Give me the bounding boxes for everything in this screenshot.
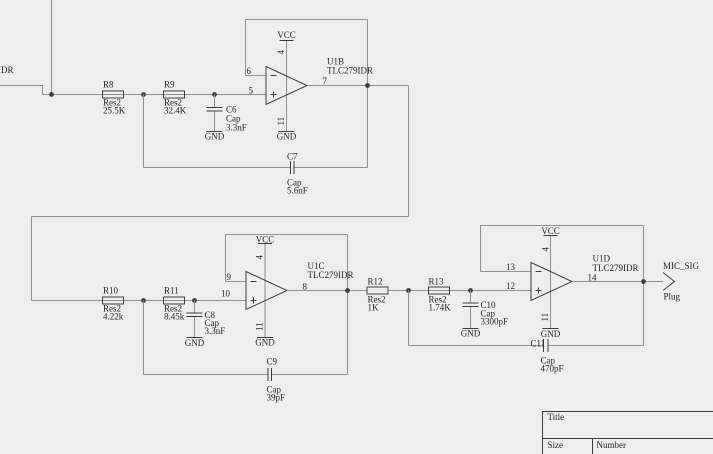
- ground for C10: [461, 329, 481, 339]
- wire C6 stub: [214, 95, 216, 132]
- capacitor C9: [267, 357, 286, 403]
- svg-text:VCC: VCC: [277, 30, 296, 40]
- wire pin6: [246, 75, 267, 77]
- svg-text:Title: Title: [548, 412, 565, 422]
- capacitor C7: [287, 152, 308, 196]
- svg-text:1.74K: 1.74K: [429, 303, 452, 313]
- svg-text:GND: GND: [277, 132, 297, 142]
- wire input vertical: [51, 0, 53, 95]
- svg-text:8.45k: 8.45k: [164, 312, 185, 322]
- svg-text:TLC279IDR: TLC279IDR: [327, 66, 373, 76]
- svg-text:MIC_SIG: MIC_SIG: [663, 261, 700, 271]
- ground for C8: [185, 338, 205, 349]
- resistor R11: [164, 286, 185, 322]
- wire feedback node down stage2: [143, 301, 145, 375]
- svg-text:5.6nF: 5.6nF: [287, 186, 308, 196]
- op-amp U1C: [246, 261, 354, 310]
- wire stage3 main row: [388, 290, 531, 292]
- wire U1C power stub: [264, 244, 266, 338]
- wire U1B output: [307, 85, 409, 87]
- capacitor C11: [531, 339, 564, 374]
- ground for C6: [205, 132, 225, 142]
- wire feedback C7 row: [144, 167, 368, 169]
- wire C10 stub: [470, 291, 472, 329]
- svg-text:C9: C9: [267, 357, 278, 367]
- svg-text:5: 5: [249, 86, 254, 96]
- op-amp U1D: [531, 254, 639, 301]
- connector MIC_SIG plug: [663, 261, 700, 302]
- svg-text:6: 6: [247, 66, 252, 76]
- svg-text:11: 11: [540, 313, 550, 322]
- title block frame: [543, 412, 713, 454]
- wire stage2 main row: [32, 300, 247, 302]
- ground U1D: [541, 329, 561, 340]
- wire U1C feedback box top: [226, 235, 348, 282]
- junction U1B output: [365, 83, 370, 88]
- svg-text:VCC: VCC: [541, 226, 560, 236]
- wire U1D right vertical: [643, 226, 645, 346]
- svg-text:12: 12: [506, 281, 515, 291]
- junction R12-R13 node: [406, 288, 411, 293]
- resistor R10: [103, 286, 124, 322]
- svg-text:3.3nF: 3.3nF: [205, 326, 226, 336]
- svg-text:4: 4: [541, 247, 551, 252]
- svg-text:GND: GND: [185, 338, 205, 348]
- svg-text:IDR: IDR: [0, 65, 14, 75]
- svg-text:10: 10: [221, 289, 231, 299]
- wire feedback C9 row: [144, 374, 348, 376]
- junction C6 tap: [212, 92, 217, 97]
- svg-text:4.22k: 4.22k: [103, 312, 124, 322]
- capacitor C10: [463, 300, 509, 327]
- ground U1C: [255, 338, 275, 348]
- power VCC U1D: [541, 226, 560, 236]
- wire U1D feedback box top: [481, 226, 644, 272]
- svg-text:U1D: U1D: [593, 254, 611, 264]
- wire interstage left vertical: [31, 217, 33, 301]
- svg-text:TLC279IDR: TLC279IDR: [593, 263, 639, 273]
- svg-text:Size: Size: [548, 440, 564, 450]
- wire interstage across: [32, 216, 409, 218]
- ground U1B: [277, 132, 297, 142]
- svg-text:11: 11: [255, 322, 265, 331]
- wire U1C output: [287, 290, 367, 292]
- resistor R13: [429, 277, 452, 313]
- wire U1B power stub: [286, 41, 288, 132]
- svg-text:C7: C7: [287, 152, 298, 162]
- svg-text:C11: C11: [531, 339, 546, 349]
- wire feedback node down stage3: [408, 291, 410, 346]
- svg-text:4: 4: [255, 255, 265, 260]
- svg-text:R11: R11: [164, 286, 179, 296]
- svg-text:GND: GND: [255, 338, 275, 348]
- op-amp U1B: [266, 57, 373, 105]
- wire U1B feedback box top: [246, 20, 368, 76]
- junction U1D output: [641, 279, 646, 284]
- junction C10 tap: [468, 288, 473, 293]
- junction R10-R11 node: [141, 298, 146, 303]
- svg-text:470pF: 470pF: [541, 364, 564, 374]
- junction input: [49, 92, 54, 97]
- svg-text:R13: R13: [429, 277, 445, 287]
- svg-text:R9: R9: [164, 80, 175, 90]
- wire pin13: [481, 271, 532, 273]
- svg-text:VCC: VCC: [256, 235, 275, 245]
- wire interstage down: [408, 86, 410, 217]
- capacitor C6: [207, 105, 247, 133]
- svg-text:39pF: 39pF: [267, 393, 286, 403]
- svg-text:Number: Number: [597, 440, 627, 450]
- junction C8 tap: [192, 298, 197, 303]
- wire U1B right vertical: [367, 20, 369, 168]
- svg-text:9: 9: [227, 272, 232, 282]
- resistor R9: [164, 80, 187, 116]
- svg-text:7: 7: [323, 76, 328, 86]
- svg-text:R8: R8: [103, 80, 114, 90]
- svg-text:1K: 1K: [368, 303, 380, 313]
- svg-text:R10: R10: [103, 286, 119, 296]
- svg-text:Plug: Plug: [664, 292, 681, 302]
- wire U1D output: [572, 281, 663, 283]
- resistor R12: [367, 277, 388, 313]
- power VCC U1C: [256, 235, 275, 245]
- power VCC U1B: [277, 30, 296, 41]
- wire feedback node down: [143, 95, 145, 168]
- resistor R8: [103, 80, 126, 116]
- svg-text:3.3nF: 3.3nF: [226, 123, 247, 133]
- svg-text:4: 4: [276, 50, 286, 55]
- svg-text:11: 11: [276, 117, 286, 126]
- wire pin9: [226, 281, 247, 283]
- capacitor C8: [187, 310, 226, 336]
- svg-text:25.5K: 25.5K: [103, 106, 126, 116]
- svg-text:13: 13: [506, 262, 516, 272]
- svg-text:32.4K: 32.4K: [164, 106, 187, 116]
- svg-text:TLC279IDR: TLC279IDR: [308, 270, 354, 280]
- wire U1C right vertical: [347, 235, 349, 375]
- junction U1C output: [345, 288, 350, 293]
- wire feedback C11 row: [409, 345, 644, 347]
- svg-text:R12: R12: [368, 277, 383, 287]
- svg-text:GND: GND: [205, 132, 225, 142]
- svg-text:GND: GND: [461, 329, 481, 339]
- svg-text:3300pF: 3300pF: [481, 317, 509, 327]
- wire U1D power stub: [550, 236, 552, 329]
- wire input from left edge: [0, 86, 266, 95]
- svg-text:GND: GND: [541, 329, 561, 339]
- junction R8-R9 node: [141, 92, 146, 97]
- wire C8 stub: [194, 301, 196, 338]
